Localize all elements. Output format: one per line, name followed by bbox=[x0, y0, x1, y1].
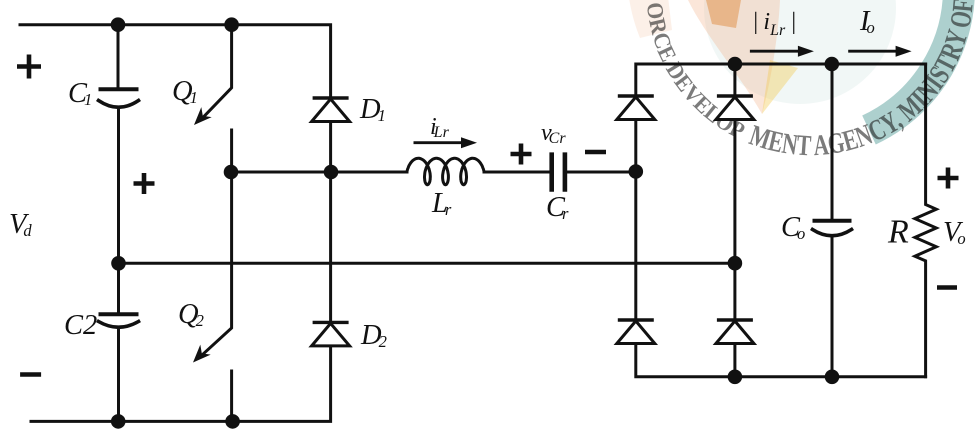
svg-text:Co: Co bbox=[781, 212, 805, 243]
svg-text:Vo: Vo bbox=[943, 217, 966, 248]
svg-text:R: R bbox=[887, 214, 909, 251]
svg-text:Cr: Cr bbox=[546, 192, 569, 223]
svg-text:Q2: Q2 bbox=[178, 299, 204, 330]
svg-text:C2: C2 bbox=[64, 310, 97, 341]
svg-text:iLr: iLr bbox=[430, 114, 450, 141]
svg-text:D1: D1 bbox=[359, 94, 386, 125]
svg-text:vCr: vCr bbox=[541, 120, 566, 147]
svg-text:C1: C1 bbox=[68, 78, 92, 109]
svg-text:Lr: Lr bbox=[431, 188, 452, 219]
svg-text:Q1: Q1 bbox=[172, 76, 198, 107]
svg-text:Vd: Vd bbox=[9, 209, 32, 240]
svg-text:D2: D2 bbox=[360, 320, 387, 351]
